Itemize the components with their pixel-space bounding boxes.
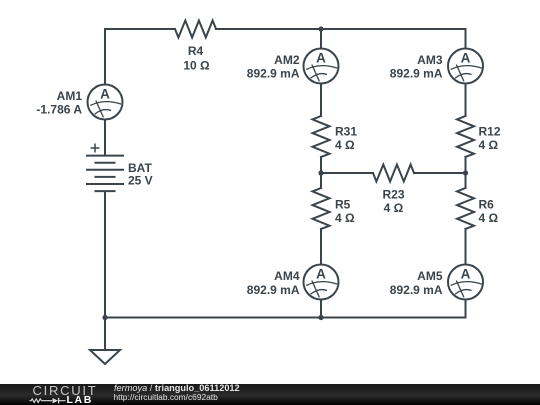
node dot bottom rail left <box>102 315 107 320</box>
ammeter AM4 <box>304 265 339 300</box>
battery BAT <box>86 156 124 192</box>
svg-text:4 Ω: 4 Ω <box>335 211 355 225</box>
ammeter AM1 <box>88 85 123 120</box>
svg-text:892.9 mA: 892.9 mA <box>247 67 300 81</box>
label AM1 <box>36 89 82 117</box>
svg-text:25 V: 25 V <box>128 173 153 187</box>
ammeter AM3 <box>448 49 483 84</box>
label R4 <box>183 44 210 73</box>
label AM5 <box>390 269 443 297</box>
wire AM2 top <box>320 29 322 49</box>
wire R23 to node B <box>414 172 466 174</box>
svg-text:AM1: AM1 <box>57 89 83 103</box>
ground <box>90 350 120 364</box>
svg-text:A: A <box>461 51 471 66</box>
wire R12 to node B <box>465 157 467 188</box>
resistor R23 <box>373 165 414 182</box>
wire AM1 to battery <box>104 121 106 156</box>
logo diode <box>53 398 59 403</box>
resistor R12 <box>457 116 474 157</box>
wire AM4 to bottom rail <box>320 300 322 318</box>
wire top rail right segment <box>216 29 466 49</box>
wire R5 to AM4 <box>320 229 322 265</box>
wire bottom rail <box>105 317 466 319</box>
svg-text:AM2: AM2 <box>274 53 300 67</box>
svg-text:R23: R23 <box>382 188 404 202</box>
node A dot <box>318 170 323 175</box>
svg-text:R31: R31 <box>335 125 357 139</box>
label BAT <box>128 161 153 188</box>
label AM3 <box>390 53 443 81</box>
svg-text:4 Ω: 4 Ω <box>479 138 499 152</box>
label R6 <box>479 198 499 226</box>
svg-text:4 Ω: 4 Ω <box>335 138 355 152</box>
svg-text:892.9 mA: 892.9 mA <box>390 283 443 297</box>
ammeter AM5 <box>448 265 483 300</box>
wire R31 to node A <box>320 157 322 188</box>
svg-text:892.9 mA: 892.9 mA <box>390 67 443 81</box>
svg-text:A: A <box>316 51 326 66</box>
logo resistor zigzag <box>30 399 53 403</box>
wire AM2 to R31 <box>320 84 322 117</box>
svg-text:LAB: LAB <box>67 394 93 405</box>
node dot top rail <box>318 26 323 31</box>
svg-text:10 Ω: 10 Ω <box>183 58 210 72</box>
resistor R31 <box>313 116 330 157</box>
svg-text:AM3: AM3 <box>417 53 443 67</box>
svg-text:-1.786 A: -1.786 A <box>36 103 82 117</box>
label R12 <box>479 125 501 153</box>
svg-text:892.9 mA: 892.9 mA <box>247 283 300 297</box>
label R31 <box>335 125 357 153</box>
resistor R6 <box>457 188 474 229</box>
wire top rail left segment <box>105 29 175 84</box>
resistor R4 <box>175 21 216 38</box>
wire R6 to AM5 <box>465 229 467 265</box>
label AM2 <box>247 53 300 81</box>
node dot bottom rail mid <box>318 315 323 320</box>
ammeter AM2 <box>304 49 339 84</box>
wire battery to ground rail <box>104 192 106 351</box>
battery plus sign <box>91 144 100 153</box>
label R23 <box>382 188 404 216</box>
node B dot <box>463 170 468 175</box>
watermark bar <box>0 384 540 405</box>
svg-text:4 Ω: 4 Ω <box>384 201 404 215</box>
svg-text:4 Ω: 4 Ω <box>479 211 499 225</box>
label R5 <box>335 198 355 226</box>
svg-text:A: A <box>316 267 326 282</box>
label AM4 <box>247 269 300 297</box>
wire AM5 to bottom rail <box>465 300 467 318</box>
svg-text:AM5: AM5 <box>417 269 443 283</box>
wire node A to R23 <box>321 172 373 174</box>
svg-text:R6: R6 <box>479 198 495 212</box>
svg-text:http://circuitlab.com/c692atb: http://circuitlab.com/c692atb <box>114 392 219 402</box>
svg-text:R5: R5 <box>335 198 351 212</box>
svg-text:A: A <box>100 87 110 102</box>
svg-text:R12: R12 <box>479 125 501 139</box>
svg-text:AM4: AM4 <box>274 269 300 283</box>
wire AM3 to R12 <box>465 84 467 117</box>
svg-text:R4: R4 <box>188 44 204 58</box>
resistor R5 <box>313 188 330 229</box>
svg-text:A: A <box>461 267 471 282</box>
